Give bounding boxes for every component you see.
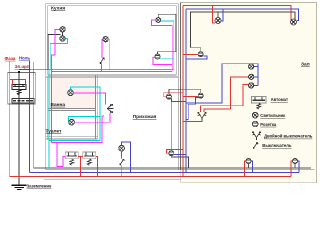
svg-text:Ноль: Ноль bbox=[19, 55, 31, 60]
wire magenta to stacked kitchen lamps bbox=[52, 29, 60, 71]
socket living room mid S5 bbox=[198, 93, 203, 98]
label Прихожая bbox=[133, 114, 157, 120]
wire cyan to stacked kitchen lamps bbox=[50, 38, 67, 69]
svg-text:Заземление: Заземление bbox=[27, 184, 52, 189]
bathroom pink area bbox=[48, 77, 96, 109]
wire blue chandelier stubs bbox=[254, 67, 258, 86]
wire neutral feed (blue) from Ноль down to bottom bus bbox=[28, 61, 30, 173]
lamp chandelier 2 bbox=[249, 74, 254, 79]
socket living room bottom S7 bbox=[293, 159, 298, 164]
wire blue drop ceiling lamp Z1 bbox=[221, 9, 223, 21]
wire red drop ceiling lamp Z1 bbox=[213, 6, 216, 23]
legend socket symbol bbox=[252, 121, 258, 127]
lamp kitchen L2 bbox=[60, 36, 65, 41]
wire blue socket S5 staircase bbox=[186, 98, 198, 120]
wire cyan socket S1 loop bbox=[160, 58, 174, 60]
wire magenta toilet lamp to double switch bbox=[75, 113, 110, 122]
wire gray socket S7 stem bbox=[294, 164, 296, 169]
wire cyan lamp L3 drop bbox=[108, 39, 110, 69]
hallway / living-room wall bbox=[178, 3, 180, 170]
svg-text:Выключатель: Выключатель bbox=[262, 143, 292, 148]
kitchen room walls bbox=[46, 4, 179, 77]
legend lamp symbol bbox=[252, 112, 258, 118]
node bus bar junction bbox=[18, 100, 20, 102]
lamp hallway bbox=[119, 145, 125, 151]
label Выключатель bbox=[262, 143, 292, 148]
switch double living room bbox=[198, 112, 206, 121]
wire blue living room riser bbox=[185, 9, 187, 172]
label Ноль bbox=[19, 55, 31, 60]
wire black stem lamp L4 bbox=[158, 14, 176, 52]
breaker outlet B bbox=[83, 152, 96, 165]
wire red outlet A drop bbox=[78, 157, 80, 177]
wire blue socket S6 bbox=[251, 161, 253, 172]
socket living room top S3 bbox=[198, 52, 203, 57]
wire blue socket S7 bbox=[298, 161, 300, 172]
wire blue top bus bbox=[186, 9, 298, 21]
legend double switch symbol bbox=[252, 132, 260, 140]
bathroom right wall bbox=[95, 75, 97, 139]
wire cyan bath branch bbox=[49, 87, 100, 141]
socket hallway S4 bbox=[166, 94, 171, 99]
node panel top junction bbox=[18, 71, 20, 73]
wire blue hallway lamp bbox=[122, 142, 131, 173]
wire red top bus bbox=[183, 6, 291, 23]
bath / toilet separator wall bbox=[48, 109, 96, 111]
wire kitchen cyan bus bbox=[49, 68, 174, 70]
label Эл.щит bbox=[15, 64, 31, 69]
wire red socket S3 bbox=[183, 54, 198, 56]
wire magenta switch SW1 to bus bbox=[100, 64, 102, 72]
wire red switch feed bbox=[183, 120, 202, 121]
svg-text:Автомат: Автомат bbox=[271, 97, 288, 102]
lamp living room ceiling Z2 bbox=[291, 19, 297, 25]
legend breaker symbol bbox=[252, 97, 267, 109]
label Ванна bbox=[51, 102, 66, 108]
wire gray socket S6 stem bbox=[248, 164, 250, 169]
ground electrode symbol bbox=[12, 185, 27, 189]
label Зал bbox=[301, 62, 310, 68]
wire red socket S6 bbox=[245, 161, 247, 176]
wire gray socket S4 ground return bbox=[171, 99, 188, 168]
wire red outlet B left pin bbox=[81, 156, 83, 158]
wire blue socket S4 bbox=[171, 98, 186, 101]
wire black from kitchen lamps to panel bbox=[19, 34, 60, 69]
switch double bathroom bbox=[107, 104, 114, 113]
svg-text:Фаза: Фаза bbox=[5, 56, 16, 61]
wire gray socket S4 stem to S5 bbox=[169, 89, 201, 94]
wire magenta lamp L3 to switch bbox=[102, 39, 103, 58]
wire red socket S4 bbox=[164, 93, 183, 97]
wire cyan toilet lamp branch bbox=[68, 116, 100, 122]
wire red hallway switch drop bbox=[121, 165, 123, 176]
toilet bottom wall bbox=[46, 137, 98, 139]
wire magenta bath riser bbox=[51, 71, 53, 142]
label Светильник bbox=[260, 113, 286, 118]
wire blue socket S3 loop bbox=[186, 56, 207, 59]
svg-text:Двойной выключатель: Двойной выключатель bbox=[264, 134, 313, 139]
switch kitchen SW1 bbox=[100, 58, 105, 64]
wire magenta double switch feed bbox=[52, 116, 104, 142]
wire red chandelier branch 2 bbox=[200, 85, 248, 112]
lamp bathroom bbox=[68, 90, 74, 96]
lamp chandelier 3 bbox=[249, 83, 254, 88]
apartment bottom wall bbox=[46, 169, 315, 171]
living room (Зал) beige area bbox=[181, 3, 317, 183]
label Двойной выключатель bbox=[264, 134, 313, 139]
label Кухня bbox=[51, 6, 65, 12]
socket hallway bottom S2 bbox=[169, 151, 174, 156]
label Фаза bbox=[5, 56, 16, 61]
wire link between stacked lamps bbox=[62, 32, 64, 36]
wire neutral bottom bus (blue) bbox=[29, 171, 299, 173]
wire magenta bath lamp to double switch bbox=[74, 93, 106, 105]
left wall below kitchen bbox=[46, 75, 48, 170]
wire magenta lamp L4 bbox=[151, 20, 172, 71]
wire red socket S2 bbox=[167, 150, 183, 154]
label Заземление bbox=[27, 184, 52, 189]
meter bus bar in panel bbox=[12, 99, 34, 103]
svg-text:Прихожая: Прихожая bbox=[133, 114, 157, 120]
wire red chandelier branch 1 bbox=[204, 77, 249, 112]
wire red outlet B drop bbox=[96, 157, 98, 177]
wire ground distribution (gray) panel to bottom gray bus bbox=[34, 62, 311, 168]
wire gray socket S3 stem bbox=[191, 48, 201, 52]
svg-text:Розетка: Розетка bbox=[260, 122, 277, 127]
wire cyan bath riser bbox=[48, 69, 50, 168]
svg-text:Ванна: Ванна bbox=[51, 102, 66, 108]
wire red socket S5 bbox=[183, 95, 198, 97]
label Розетка bbox=[260, 122, 277, 127]
legend single switch symbol bbox=[253, 142, 258, 148]
wire magenta to wall outlets bbox=[52, 142, 66, 166]
wire phase feed (red) from Фаза down to bottom bus bbox=[9, 61, 11, 176]
svg-text:Светильник: Светильник bbox=[260, 113, 286, 118]
wire phase into panel breaker bbox=[10, 80, 26, 85]
wire phase bottom bus (red) bbox=[10, 175, 291, 177]
switch hallway bbox=[120, 159, 125, 165]
svg-text:Эл.щит: Эл.щит bbox=[15, 64, 31, 69]
label Туалет bbox=[46, 128, 63, 134]
wire magenta socket S1 loop bbox=[153, 58, 172, 65]
wire gray stem ceiling lamp Z1 bbox=[217, 12, 219, 18]
wire red living room riser bbox=[182, 6, 184, 177]
lamp kitchen top-right L4 bbox=[156, 18, 161, 23]
wire ground main (black) panel to ground electrode bbox=[18, 72, 20, 185]
wire ground return lower (gray) bbox=[44, 179, 181, 181]
svg-text:Туалет: Туалет bbox=[46, 128, 63, 134]
svg-text:Зал: Зал bbox=[301, 62, 310, 68]
wire blue chandelier feed bbox=[186, 64, 258, 103]
panel box Эл.щит bbox=[8, 73, 36, 105]
lamp kitchen centre L3 bbox=[103, 37, 108, 42]
wire gray stem socket S1 bbox=[158, 52, 176, 54]
breaker outlet A bbox=[65, 152, 78, 165]
breaker in panel bbox=[12, 85, 26, 95]
lamp chandelier 1 bbox=[249, 64, 254, 69]
lamp living room ceiling Z1 bbox=[215, 18, 221, 24]
svg-text:Кухня: Кухня bbox=[51, 6, 65, 12]
wire red hallway lamp to switch bbox=[121, 151, 123, 158]
label Автомат bbox=[271, 97, 288, 102]
wire red socket S7 bbox=[291, 161, 293, 176]
wire kitchen magenta bus bbox=[52, 70, 173, 72]
socket kitchen S1 bbox=[155, 54, 160, 59]
wire blue socket S2 bbox=[174, 153, 186, 155]
lamp toilet bbox=[69, 119, 75, 125]
socket living room bottom S6 bbox=[246, 159, 251, 164]
wire cyan lamp L4 bbox=[160, 21, 173, 70]
wire gray top ground bus bbox=[191, 12, 295, 48]
lamp kitchen L1 bbox=[60, 27, 65, 32]
